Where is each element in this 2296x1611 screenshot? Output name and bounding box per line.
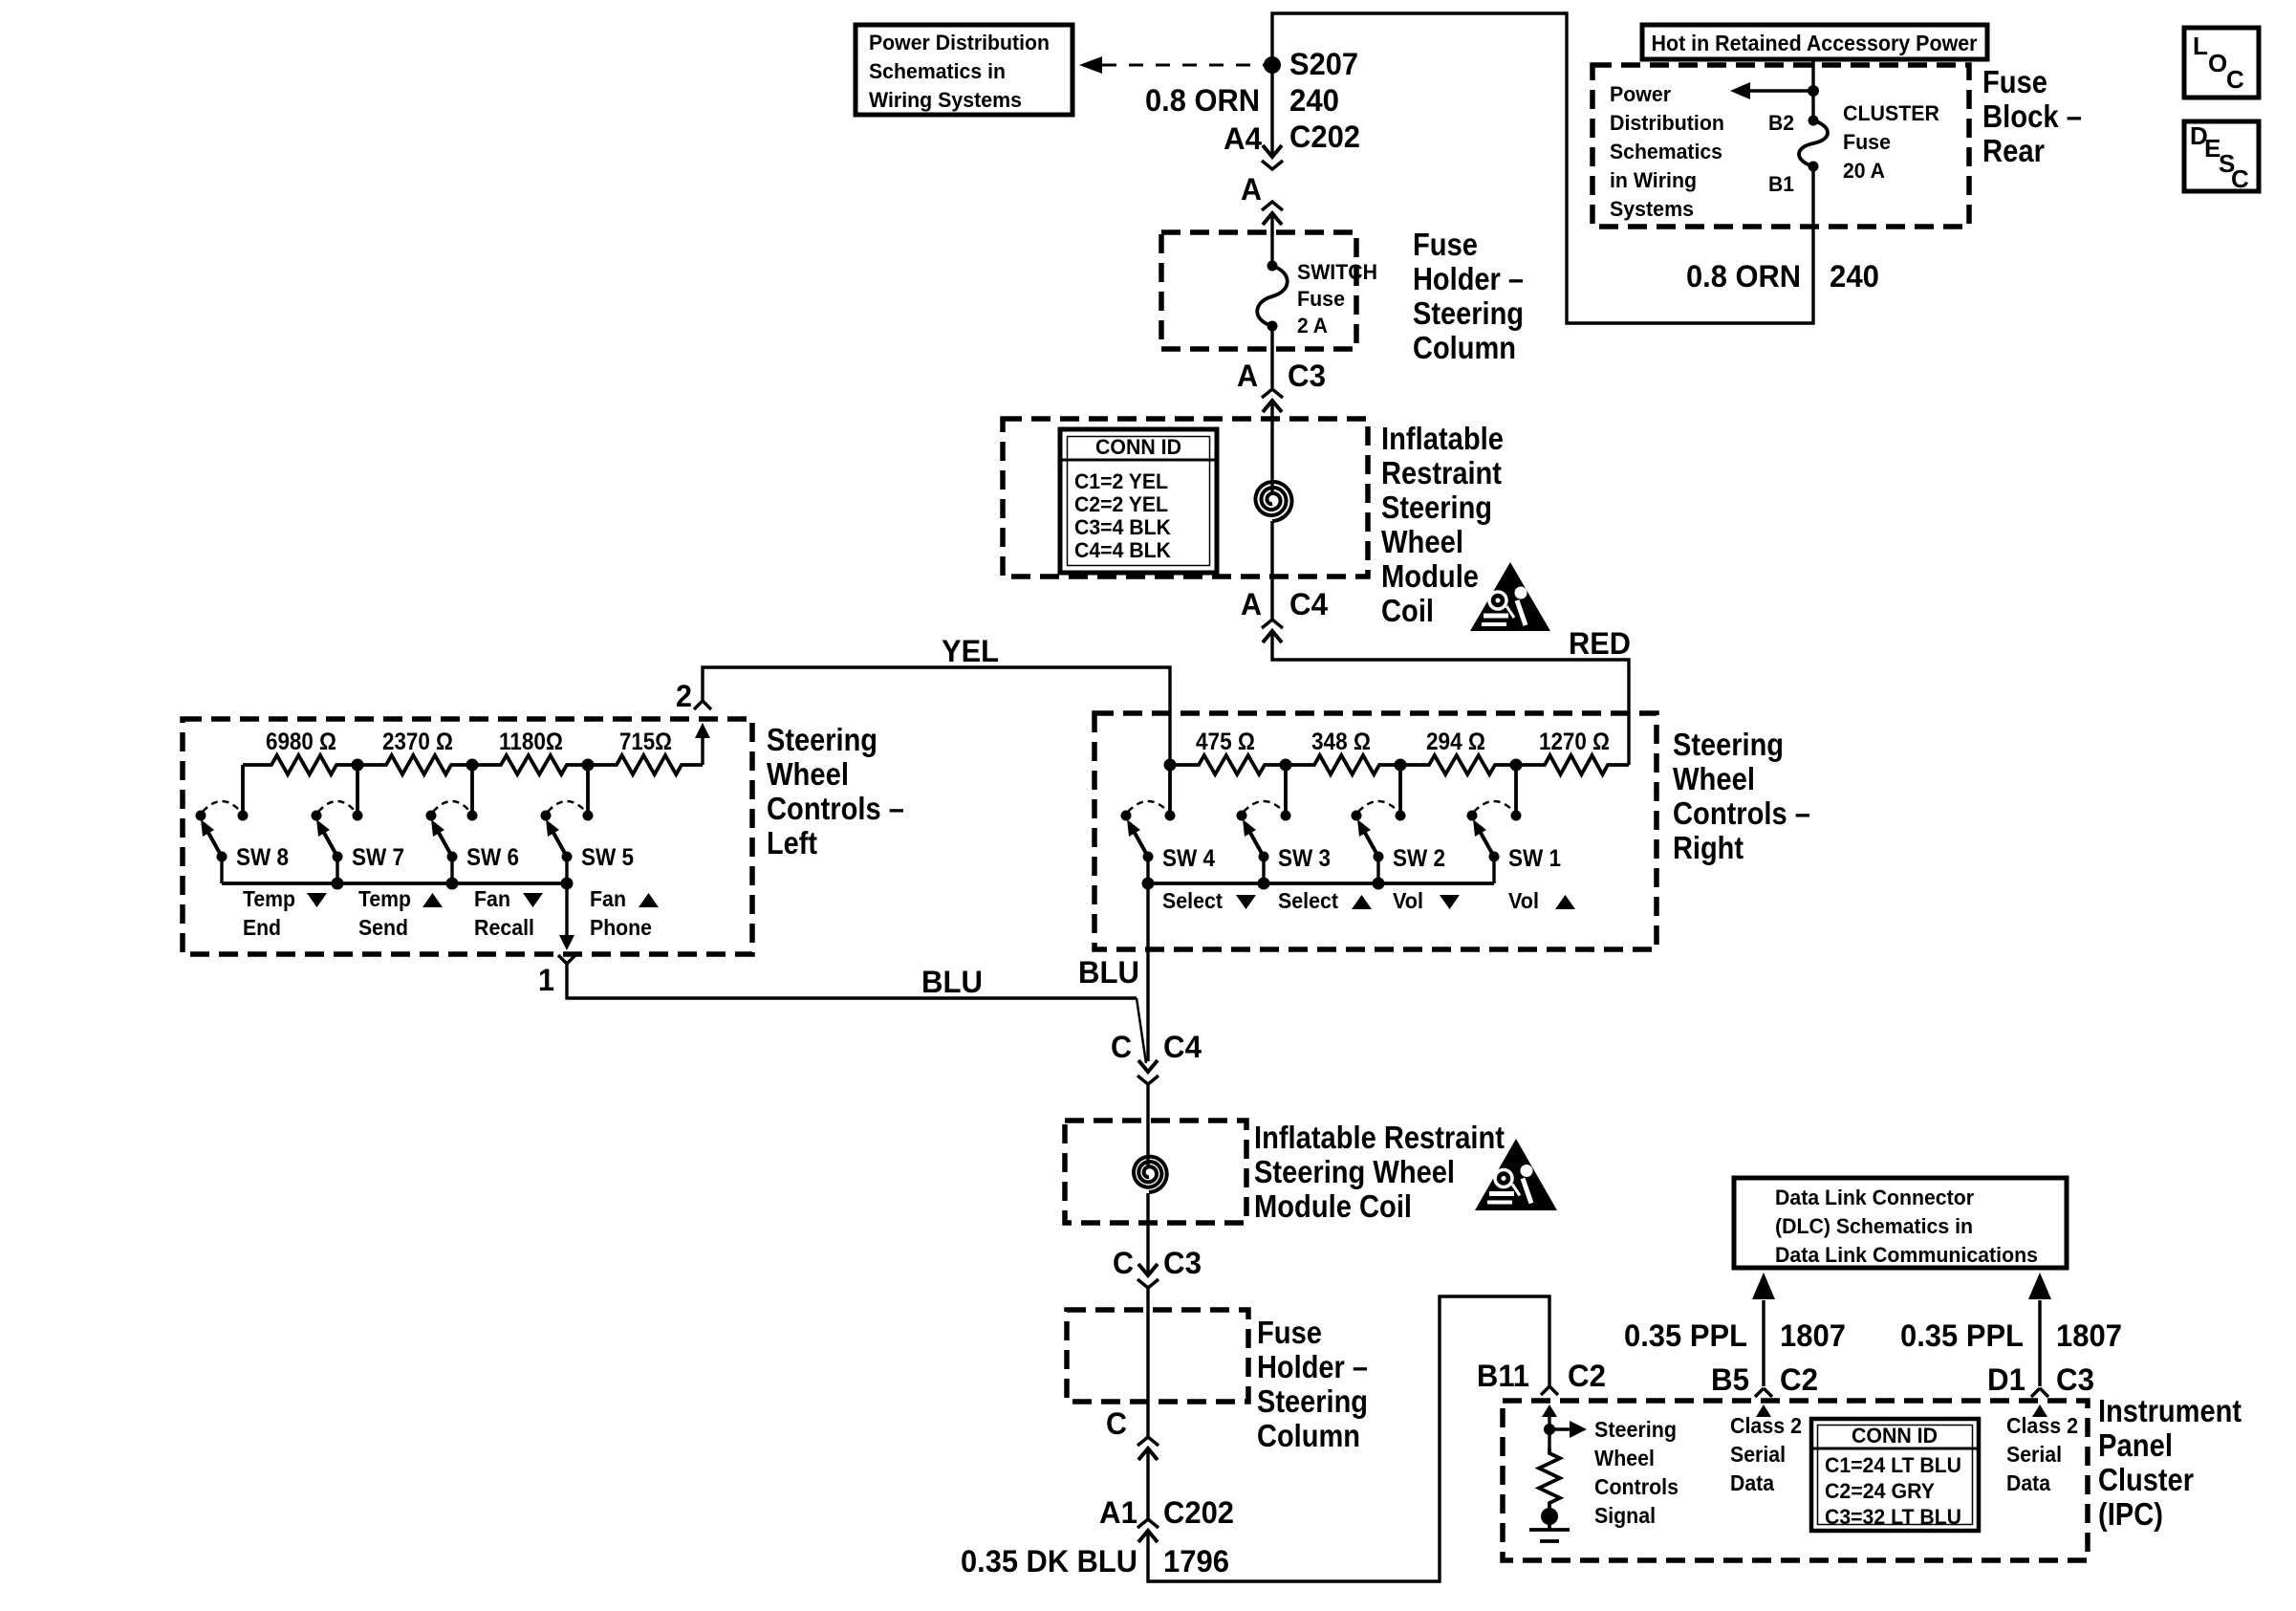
svg-text:Module Coil: Module Coil bbox=[1254, 1188, 1412, 1224]
svg-text:D1: D1 bbox=[1987, 1362, 2025, 1397]
svg-text:Hot in Retained Accessory Powe: Hot in Retained Accessory Power bbox=[1652, 31, 1978, 55]
svg-text:CLUSTER: CLUSTER bbox=[1843, 101, 1939, 125]
connector fuse holder pin A (inline, up) bbox=[1241, 172, 1283, 225]
box: Power Distribution Schematics in Wiring Systems (top left) bbox=[856, 25, 1072, 115]
svg-text:SWITCH: SWITCH bbox=[1297, 260, 1377, 284]
svg-text:1270 Ω: 1270 Ω bbox=[1539, 729, 1610, 755]
svg-text:0.8 ORN: 0.8 ORN bbox=[1145, 83, 1260, 118]
svg-text:Serial: Serial bbox=[2006, 1442, 2062, 1467]
label: Steering Wheel Controls - Right bbox=[1673, 727, 1810, 865]
svg-text:Fan: Fan bbox=[590, 886, 626, 911]
svg-text:C3: C3 bbox=[2056, 1362, 2094, 1397]
switch SW 4 bbox=[1121, 801, 1216, 883]
box: Fuse Holder - Steering Column (top, dashed) bbox=[1161, 232, 1356, 349]
svg-text:SW 3: SW 3 bbox=[1278, 845, 1331, 872]
svg-text:Fuse: Fuse bbox=[1297, 287, 1345, 311]
node: splice at B2 feed bbox=[1808, 85, 1819, 97]
svg-text:Steering Wheel: Steering Wheel bbox=[1254, 1154, 1455, 1189]
wire: feed loop from fuse B1 around top to S207 bbox=[1272, 13, 1813, 323]
box: LOC legend bbox=[2184, 28, 2259, 98]
labels: Temp End / Temp Send / Fan Recall / Fan Phone bbox=[243, 886, 327, 940]
box: Hot in Retained Accessory Power bbox=[1642, 25, 1987, 59]
svg-text:2: 2 bbox=[676, 679, 692, 713]
svg-text:A: A bbox=[1237, 359, 1258, 393]
svg-text:Steering: Steering bbox=[1381, 490, 1492, 525]
svg-text:Steering: Steering bbox=[767, 722, 877, 757]
svg-text:Power: Power bbox=[1610, 82, 1671, 106]
svg-text:SW 6: SW 6 bbox=[466, 844, 519, 871]
label 0.8 ORN 240 (circuit) bbox=[1145, 83, 1339, 118]
svg-text:SW 8: SW 8 bbox=[236, 844, 289, 871]
svg-text:(IPC): (IPC) bbox=[2098, 1496, 2163, 1532]
svg-text:1180Ω: 1180Ω bbox=[499, 729, 563, 755]
svg-text:B1: B1 bbox=[1768, 172, 1794, 196]
svg-text:Column: Column bbox=[1257, 1418, 1360, 1453]
fuse CLUSTER Fuse 20 A bbox=[1768, 101, 1939, 196]
svg-text:Controls: Controls bbox=[1594, 1474, 1679, 1499]
svg-text:Instrument: Instrument bbox=[2098, 1393, 2242, 1428]
box: Data Link Connector (DLC) Schematics in Data Link Communications bbox=[1734, 1178, 2067, 1268]
svg-text:A1: A1 bbox=[1099, 1495, 1137, 1530]
svg-text:2 A: 2 A bbox=[1297, 314, 1328, 337]
label: Class 2 Serial Data (right) bbox=[2006, 1413, 2078, 1495]
svg-text:Module: Module bbox=[1381, 558, 1479, 594]
svg-text:Controls –: Controls – bbox=[767, 791, 904, 826]
SRS warning triangle (upper) bbox=[1470, 562, 1550, 631]
svg-text:in Wiring: in Wiring bbox=[1610, 168, 1697, 192]
wire: dashed arrow from S207 to Power Distribution box bbox=[1079, 56, 1266, 74]
svg-text:Recall: Recall bbox=[474, 915, 534, 940]
svg-text:240: 240 bbox=[1830, 259, 1879, 294]
svg-text:Column: Column bbox=[1413, 330, 1516, 365]
wire: C3 into lower fuse holder bbox=[1146, 1288, 1149, 1437]
wire BLU: connector 1 to module coil C4 bbox=[567, 964, 1137, 998]
svg-text:Steering: Steering bbox=[1257, 1383, 1368, 1419]
svg-text:C1=24 LT BLU: C1=24 LT BLU bbox=[1825, 1453, 1961, 1477]
svg-text:SW 7: SW 7 bbox=[352, 844, 404, 871]
connector 2 (left controls, top) bbox=[676, 679, 711, 765]
svg-text:Fuse: Fuse bbox=[1982, 64, 2047, 99]
svg-text:C202: C202 bbox=[1289, 120, 1360, 154]
label: Steering Wheel Controls Signal bbox=[1594, 1417, 1679, 1528]
svg-text:Data: Data bbox=[2006, 1470, 2050, 1495]
svg-text:C2=24 GRY: C2=24 GRY bbox=[1825, 1479, 1935, 1503]
svg-text:Fuse: Fuse bbox=[1413, 227, 1478, 262]
svg-text:Steering: Steering bbox=[1594, 1417, 1677, 1442]
resistor 1270 ohm bbox=[1516, 729, 1629, 774]
svg-text:Wiring Systems: Wiring Systems bbox=[869, 88, 1022, 112]
wire: arrow to power distribution text bbox=[1730, 82, 1813, 99]
wire: C4 into lower coil module bbox=[1146, 1084, 1149, 1121]
svg-text:Data Link Connector: Data Link Connector bbox=[1775, 1186, 1974, 1209]
svg-text:294 Ω: 294 Ω bbox=[1426, 729, 1485, 755]
svg-text:Inflatable: Inflatable bbox=[1381, 421, 1504, 456]
svg-text:Send: Send bbox=[358, 915, 408, 940]
svg-text:Systems: Systems bbox=[1610, 197, 1694, 221]
svg-text:2370 Ω: 2370 Ω bbox=[382, 729, 453, 755]
connector C3 pin C (inline, down) bbox=[1113, 1246, 1202, 1288]
box: DESC legend bbox=[2184, 121, 2259, 193]
svg-text:Class 2: Class 2 bbox=[2006, 1413, 2078, 1438]
svg-text:Restraint: Restraint bbox=[1381, 455, 1502, 490]
svg-text:Fuse: Fuse bbox=[1257, 1315, 1322, 1350]
svg-text:Schematics: Schematics bbox=[1610, 140, 1722, 163]
svg-text:Distribution: Distribution bbox=[1610, 111, 1724, 135]
svg-text:0.8 ORN: 0.8 ORN bbox=[1686, 259, 1801, 294]
svg-text:Inflatable Restraint: Inflatable Restraint bbox=[1254, 1120, 1505, 1155]
svg-text:C3=32 LT BLU: C3=32 LT BLU bbox=[1825, 1505, 1961, 1529]
svg-text:0.35 PPL: 0.35 PPL bbox=[1624, 1318, 1747, 1353]
wire: B11 internal stub with signal arrow bbox=[1544, 1416, 1587, 1448]
svg-text:Fan: Fan bbox=[474, 886, 510, 911]
svg-text:B5: B5 bbox=[1711, 1362, 1749, 1397]
label: Inflatable Restraint Steering Wheel Module Coil bbox=[1381, 421, 1504, 628]
svg-text:Controls –: Controls – bbox=[1673, 795, 1810, 831]
ground (IPC internal) bbox=[1529, 1508, 1570, 1541]
box: Fuse Holder - Steering Column (lower, dashed) bbox=[1067, 1310, 1248, 1402]
svg-text:(DLC) Schematics in: (DLC) Schematics in bbox=[1775, 1214, 1973, 1238]
svg-text:C4: C4 bbox=[1163, 1030, 1202, 1064]
wire: 0.35 DK BLU 1796 to IPC B11 bbox=[1148, 1296, 1549, 1581]
svg-text:SW 4: SW 4 bbox=[1162, 845, 1215, 872]
svg-text:Signal: Signal bbox=[1594, 1503, 1656, 1528]
svg-text:Select: Select bbox=[1162, 888, 1223, 913]
svg-text:A4: A4 bbox=[1224, 121, 1262, 156]
svg-text:C3: C3 bbox=[1288, 359, 1326, 393]
svg-text:Vol: Vol bbox=[1393, 888, 1423, 913]
svg-text:C2: C2 bbox=[1568, 1359, 1606, 1393]
label: Fuse Block - Rear bbox=[1982, 64, 2082, 168]
box: Inflatable Restraint Steering Wheel Module Coil (dashed) bbox=[1003, 419, 1368, 577]
svg-text:C: C bbox=[1113, 1246, 1134, 1280]
svg-text:Wheel: Wheel bbox=[1673, 761, 1755, 796]
SRS warning triangle (lower) bbox=[1475, 1139, 1557, 1210]
svg-text:348 Ω: 348 Ω bbox=[1311, 729, 1371, 755]
wire: lower coil to connector C3 bbox=[1146, 1223, 1149, 1275]
box: Instrument Panel Cluster IPC (dashed) bbox=[1503, 1401, 2088, 1560]
svg-text:Cluster: Cluster bbox=[2098, 1462, 2194, 1497]
svg-text:0.35 DK BLU: 0.35 DK BLU bbox=[961, 1544, 1137, 1578]
svg-text:RED: RED bbox=[1569, 626, 1631, 661]
svg-text:C: C bbox=[1106, 1406, 1127, 1441]
label: Fuse Holder - Steering Column (lower) bbox=[1257, 1315, 1368, 1453]
svg-text:YEL: YEL bbox=[942, 634, 999, 668]
svg-text:715Ω: 715Ω bbox=[619, 729, 672, 755]
label: Steering Wheel Controls - Left bbox=[767, 722, 904, 860]
svg-text:Holder –: Holder – bbox=[1257, 1349, 1368, 1384]
connector C202 pin A1 (inline, up) bbox=[1099, 1495, 1234, 1542]
svg-text:Wheel: Wheel bbox=[767, 756, 849, 792]
wire: C4 to steering wheel controls right (RED) bbox=[1272, 631, 1629, 765]
svg-text:A: A bbox=[1241, 587, 1262, 621]
connector C4 pin A (inline, up) bbox=[1241, 587, 1328, 642]
coil spiral (lower clockspring) bbox=[1134, 1157, 1167, 1192]
wire BLU: SW4 down to connector C4 bbox=[1146, 883, 1149, 1061]
resistor 475 ohm bbox=[1170, 729, 1286, 774]
svg-text:C4=4 BLK: C4=4 BLK bbox=[1074, 538, 1171, 562]
node dots on right resistor chain bbox=[1164, 759, 1523, 772]
switch SW 6 bbox=[426, 801, 520, 883]
box: Steering Wheel Controls - Right (dashed) bbox=[1094, 713, 1657, 949]
resistor (IPC internal) bbox=[1539, 1448, 1560, 1508]
switch SW 5 bbox=[541, 801, 635, 883]
svg-text:0.35 PPL: 0.35 PPL bbox=[1900, 1318, 2024, 1353]
label: Fuse Holder - Steering Column (top) bbox=[1413, 227, 1524, 365]
resistor 6980 ohm bbox=[243, 729, 357, 774]
connector C3 pin A (inline, up) bbox=[1237, 359, 1326, 412]
svg-text:BLU: BLU bbox=[921, 965, 983, 999]
svg-text:B2: B2 bbox=[1768, 111, 1794, 135]
node dots on right bus bbox=[1142, 878, 1385, 890]
svg-text:Data Link Communications: Data Link Communications bbox=[1775, 1243, 2038, 1267]
connector C3 pin D1 (IPC edge) bbox=[1987, 1362, 2094, 1417]
svg-text:C2: C2 bbox=[1780, 1362, 1818, 1397]
wire stubs chain to switch contacts (left box) bbox=[243, 765, 588, 816]
svg-text:Steering: Steering bbox=[1673, 727, 1784, 762]
box: Steering Wheel Controls - Left (dashed) bbox=[183, 719, 752, 954]
switch SW 3 bbox=[1237, 801, 1332, 883]
svg-text:C4: C4 bbox=[1289, 587, 1328, 621]
wire: left switch common bus bbox=[222, 882, 567, 885]
svg-text:B11: B11 bbox=[1477, 1359, 1529, 1393]
switch SW 7 bbox=[312, 801, 405, 883]
wire: C3 into coil module bbox=[1270, 401, 1273, 620]
svg-text:Rear: Rear bbox=[1982, 133, 2045, 168]
wire: Class 2 serial data to DLC (left) bbox=[1752, 1273, 1775, 1386]
table CONN ID (coil module) bbox=[1060, 429, 1217, 573]
svg-text:Steering: Steering bbox=[1413, 295, 1524, 331]
resistor 715 ohm bbox=[588, 729, 703, 774]
svg-text:240: 240 bbox=[1289, 83, 1339, 118]
svg-text:C202: C202 bbox=[1163, 1495, 1234, 1530]
svg-text:Fuse: Fuse bbox=[1843, 130, 1891, 154]
svg-text:Serial: Serial bbox=[1730, 1442, 1786, 1467]
svg-text:C: C bbox=[1111, 1030, 1132, 1064]
label 0.8 ORN 240 (fuse output) bbox=[1686, 259, 1879, 294]
connector C4 pin C (inline, down) bbox=[1111, 1030, 1202, 1084]
switch SW 8 bbox=[196, 801, 290, 883]
connector C202 pin A4 (inline, down) bbox=[1224, 120, 1360, 169]
svg-text:Holder –: Holder – bbox=[1413, 261, 1524, 296]
svg-text:Wheel: Wheel bbox=[1381, 524, 1463, 559]
node dots on left resistor chain bbox=[352, 759, 595, 772]
resistor 1180 ohm bbox=[472, 729, 588, 774]
svg-text:1: 1 bbox=[538, 963, 554, 997]
wire stubs chain to switch contacts (right box) bbox=[1170, 765, 1516, 816]
wire: hot feed into fuse block bbox=[1811, 59, 1814, 120]
svg-text:20 A: 20 A bbox=[1843, 159, 1885, 183]
wire: right switch common bus bbox=[1148, 882, 1494, 885]
svg-text:Right: Right bbox=[1673, 830, 1744, 865]
svg-text:6980 Ω: 6980 Ω bbox=[266, 729, 336, 755]
svg-text:A: A bbox=[1241, 172, 1262, 207]
svg-text:Left: Left bbox=[767, 825, 817, 860]
svg-text:L: L bbox=[2193, 32, 2208, 60]
label 0.35 DK BLU 1796 bbox=[961, 1544, 1229, 1578]
connector C2 pin B11 (IPC edge) bbox=[1477, 1359, 1606, 1417]
svg-text:C2=2 YEL: C2=2 YEL bbox=[1074, 492, 1168, 516]
connector fuse holder pin C (inline, up) bbox=[1106, 1406, 1159, 1460]
svg-text:Class 2: Class 2 bbox=[1730, 1413, 1802, 1438]
svg-text:Temp: Temp bbox=[358, 886, 411, 911]
label 0.35 PPL 1807 (left) bbox=[1624, 1318, 1846, 1353]
svg-text:C: C bbox=[2226, 65, 2244, 94]
switch SW 1 bbox=[1467, 801, 1562, 883]
resistor 348 ohm bbox=[1286, 729, 1400, 774]
svg-text:S207: S207 bbox=[1289, 47, 1358, 81]
svg-text:Wheel: Wheel bbox=[1594, 1446, 1655, 1470]
connector 1 (left controls, bottom) bbox=[538, 955, 575, 997]
label: Instrument Panel Cluster (IPC) bbox=[2098, 1393, 2242, 1532]
label: Inflatable Restraint Steering Wheel Module Coil (lower) bbox=[1254, 1120, 1505, 1224]
svg-text:SW 2: SW 2 bbox=[1393, 845, 1445, 872]
svg-text:Power Distribution: Power Distribution bbox=[869, 31, 1050, 54]
svg-text:BLU: BLU bbox=[1078, 955, 1139, 990]
wire: S207 down to connector C202 bbox=[1270, 65, 1273, 157]
wire: Class 2 serial data to DLC (right) bbox=[2028, 1273, 2051, 1386]
svg-text:O: O bbox=[2208, 49, 2227, 77]
wire: pin A into fuse holder bbox=[1270, 213, 1273, 266]
svg-text:CONN ID: CONN ID bbox=[1852, 1424, 1938, 1448]
connector C2 pin B5 (IPC edge) bbox=[1711, 1362, 1818, 1417]
wire: pin C down to connector C202 bbox=[1146, 1448, 1149, 1519]
resistor 294 ohm bbox=[1400, 729, 1516, 774]
svg-text:1807: 1807 bbox=[2056, 1318, 2122, 1353]
table CONN ID (IPC) bbox=[1811, 1419, 1979, 1531]
node dots on left bus bbox=[332, 878, 574, 890]
svg-text:C: C bbox=[2231, 164, 2249, 193]
svg-text:C3=4 BLK: C3=4 BLK bbox=[1074, 515, 1171, 539]
svg-text:C1=2 YEL: C1=2 YEL bbox=[1074, 469, 1168, 493]
wire YEL: from connector 2 to right controls bbox=[703, 667, 1170, 765]
box: Inflatable Restraint Steering Wheel Module Coil (lower, dashed) bbox=[1065, 1121, 1246, 1223]
svg-text:CONN ID: CONN ID bbox=[1095, 435, 1181, 459]
svg-text:Panel: Panel bbox=[2098, 1427, 2173, 1463]
svg-text:Temp: Temp bbox=[243, 886, 295, 911]
wire: SW5 bus down to connector 1 bbox=[565, 883, 568, 937]
svg-text:Schematics in: Schematics in bbox=[869, 59, 1006, 83]
text: Power Distribution Schematics in Wiring Systems (in fuse block) bbox=[1610, 82, 1724, 221]
labels: Select / Select / Vol / Vol bbox=[1162, 888, 1256, 913]
label 0.35 PPL 1807 (right) bbox=[1900, 1318, 2122, 1353]
node S207 splice bbox=[1264, 47, 1358, 81]
wire: fuse holder down to connector C3 bbox=[1270, 326, 1273, 388]
svg-text:End: End bbox=[243, 915, 281, 940]
svg-text:Select: Select bbox=[1278, 888, 1338, 913]
switch SW 2 bbox=[1352, 801, 1446, 883]
svg-text:C3: C3 bbox=[1163, 1246, 1202, 1280]
svg-text:Data: Data bbox=[1730, 1470, 1774, 1495]
svg-text:Coil: Coil bbox=[1381, 593, 1434, 628]
wire through lower coil module bbox=[1146, 1121, 1149, 1223]
label: Class 2 Serial Data (left) bbox=[1730, 1413, 1802, 1495]
coil spiral (clockspring) bbox=[1256, 482, 1292, 521]
svg-text:1796: 1796 bbox=[1163, 1544, 1229, 1578]
svg-text:SW 5: SW 5 bbox=[581, 844, 634, 871]
fuse SWITCH Fuse 2 A bbox=[1257, 260, 1377, 337]
svg-text:Vol: Vol bbox=[1508, 888, 1539, 913]
svg-text:475 Ω: 475 Ω bbox=[1196, 729, 1255, 755]
resistor 2370 ohm bbox=[357, 729, 472, 774]
box: Fuse Block - Rear (dashed) bbox=[1592, 65, 1969, 227]
svg-text:Phone: Phone bbox=[590, 915, 652, 940]
svg-text:SW 1: SW 1 bbox=[1508, 845, 1561, 872]
svg-text:1807: 1807 bbox=[1780, 1318, 1846, 1353]
svg-text:Block –: Block – bbox=[1982, 98, 2082, 134]
